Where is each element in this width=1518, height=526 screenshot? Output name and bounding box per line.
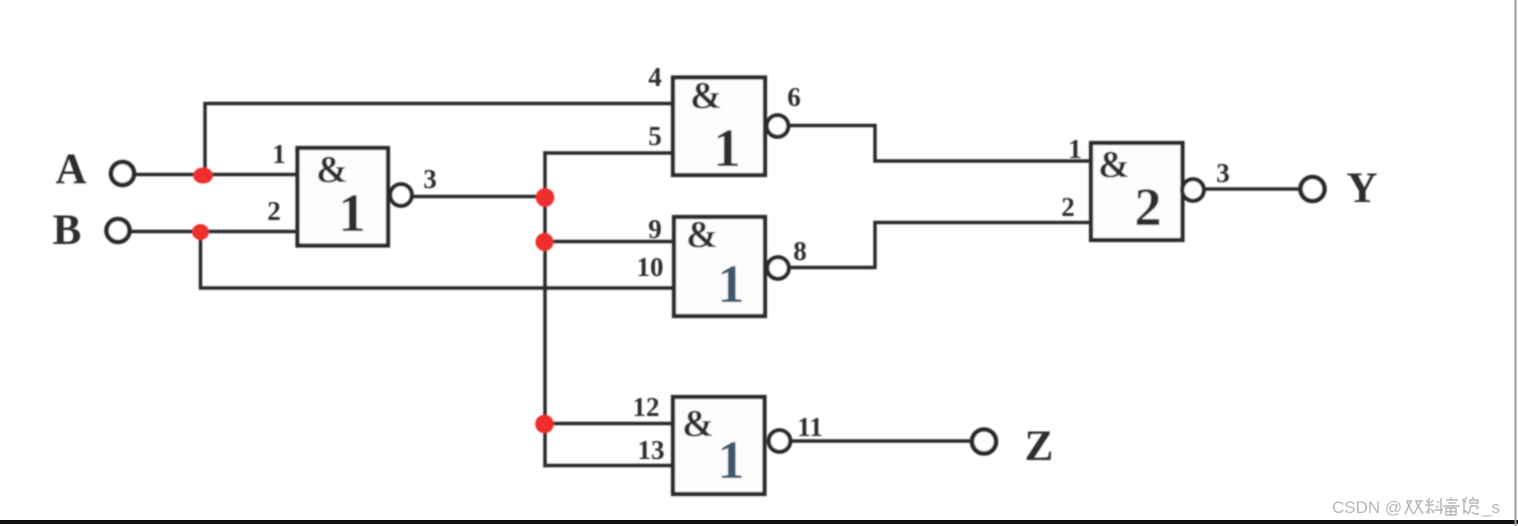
node X junction dot 1 <box>536 188 555 207</box>
U2 output bubble <box>767 115 789 137</box>
pin number 8 <box>793 236 807 266</box>
output terminal Y <box>1301 177 1325 201</box>
svg-text:_s: _s <box>1481 498 1500 517</box>
svg-text:13: 13 <box>638 435 665 465</box>
right edge line <box>1515 0 1517 526</box>
wire U1 out to node <box>412 195 545 199</box>
wire node A up <box>205 104 673 176</box>
wire U2 out to U4 pin 1 <box>788 126 1091 162</box>
NAND gate U3 (pins 9,10 -> 8) <box>674 214 765 316</box>
svg-text:3: 3 <box>423 164 437 194</box>
svg-text:&: & <box>1098 144 1130 186</box>
wire A to gate U1 pin 1 <box>136 173 298 177</box>
svg-text:10: 10 <box>637 252 664 282</box>
svg-text:1: 1 <box>272 139 286 169</box>
svg-text:A: A <box>55 146 86 193</box>
svg-text:3: 3 <box>1216 158 1230 188</box>
U3 output bubble <box>767 257 789 279</box>
svg-text:1: 1 <box>339 183 366 243</box>
pin number 1 of U4 <box>1068 134 1082 164</box>
pin number 5 <box>648 121 662 151</box>
svg-text:CSDN @: CSDN @ <box>1332 498 1402 517</box>
svg-text:4: 4 <box>648 62 662 92</box>
pin number 6 <box>787 82 801 112</box>
svg-text:6: 6 <box>787 82 801 112</box>
NAND gate U5 (pins 12,13 -> 11) <box>673 397 765 494</box>
svg-text:12: 12 <box>633 392 660 422</box>
pin number 3 of U4 <box>1216 158 1230 188</box>
svg-text:&: & <box>686 214 718 256</box>
pin number 12 <box>633 392 660 422</box>
svg-text:2: 2 <box>267 196 281 226</box>
svg-text:1: 1 <box>714 118 741 178</box>
output label Z <box>1025 423 1054 470</box>
input terminal A <box>111 162 134 185</box>
wire node X to U5 pin 12 <box>545 422 673 426</box>
node B junction dot <box>192 224 209 240</box>
U4 output bubble <box>1182 179 1204 201</box>
svg-text:8: 8 <box>793 236 807 266</box>
input label A <box>55 146 86 193</box>
pin number 4 <box>648 62 662 92</box>
svg-text:Z: Z <box>1025 423 1054 470</box>
svg-text:&: & <box>682 403 714 445</box>
NAND gate U2 (pins 4,5 -> 6) <box>673 75 765 178</box>
input terminal B <box>107 219 130 242</box>
wire U4 out to Y <box>1204 187 1300 191</box>
svg-text:&: & <box>690 75 722 117</box>
wire node X to U2 pin 5 <box>545 151 673 155</box>
svg-text:11: 11 <box>797 412 823 442</box>
svg-text:Y: Y <box>1346 165 1377 212</box>
output label Y <box>1346 165 1377 212</box>
node A junction dot <box>193 168 213 184</box>
U5 output bubble <box>769 430 791 452</box>
svg-text:2: 2 <box>1061 192 1075 222</box>
NAND gate U4 (pins 1,2 -> 3) output stage <box>1091 143 1183 240</box>
svg-text:1: 1 <box>718 254 745 314</box>
bottom border line <box>0 520 1518 524</box>
wire node X corner to U5 pin 13 <box>545 464 673 468</box>
output terminal Z <box>972 430 996 454</box>
svg-text:2: 2 <box>1135 177 1162 237</box>
wire node X to U3 pin 9 <box>545 240 674 244</box>
svg-text:1: 1 <box>1068 134 1082 164</box>
NAND gate U1 (pins 1,2 -> 3) <box>298 148 389 246</box>
pin number 11 <box>797 412 823 442</box>
watermark CSDN <box>1332 497 1500 517</box>
pin number 2 of U4 <box>1061 192 1075 222</box>
svg-text:B: B <box>53 207 82 254</box>
wire node X vertical bus <box>543 153 547 466</box>
pin number 2 <box>267 196 281 226</box>
pin number 1 <box>272 139 286 169</box>
pin number 13 <box>638 435 665 465</box>
pin number 3 <box>423 164 437 194</box>
svg-text:1: 1 <box>718 430 745 490</box>
pin number 10 <box>637 252 664 282</box>
wire node B down to pin 10 <box>201 232 675 288</box>
wire U3 out to U4 pin 2 <box>789 223 1091 268</box>
node X junction dot 2 <box>536 233 554 251</box>
svg-text:9: 9 <box>648 214 662 244</box>
pin number 9 <box>648 214 662 244</box>
input label B <box>53 207 82 254</box>
wire U5 out to Z <box>791 439 972 443</box>
node X junction dot 3 <box>535 415 554 434</box>
svg-text:5: 5 <box>648 121 662 151</box>
U1 output bubble <box>390 184 412 206</box>
wire B to gate U1 pin 2 <box>131 230 298 234</box>
